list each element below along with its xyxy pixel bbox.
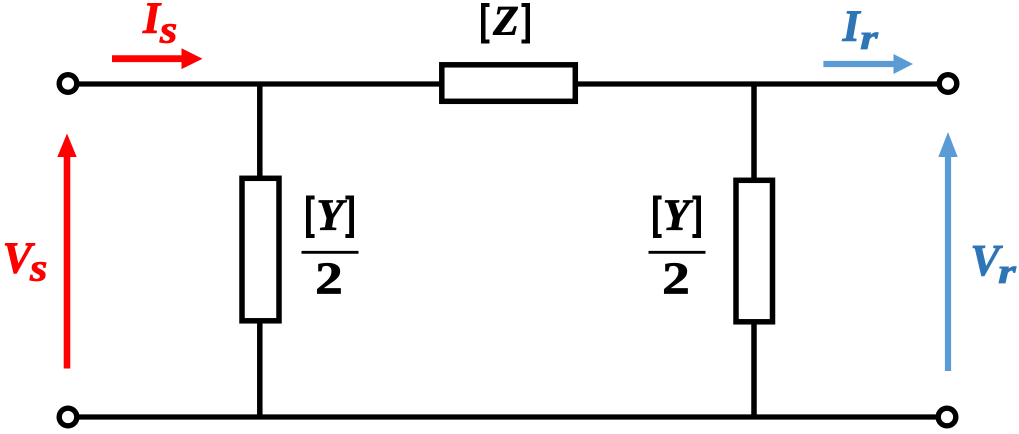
svg-text:r: r bbox=[998, 252, 1017, 291]
label Y/2 left denominator bbox=[315, 253, 343, 303]
arrow Vr voltage bbox=[945, 157, 951, 372]
impedance Z series box bbox=[442, 65, 576, 102]
svg-text:2: 2 bbox=[662, 253, 690, 303]
label Y/2 left numerator bbox=[306, 191, 354, 240]
arrow Is current bbox=[112, 55, 182, 62]
svg-text:I: I bbox=[842, 2, 862, 51]
label Y/2 right numerator bbox=[653, 191, 701, 240]
wire bottom rail bbox=[79, 414, 936, 419]
wire right shunt branch bbox=[751, 84, 757, 417]
terminal top-left bbox=[59, 75, 77, 93]
svg-text:s: s bbox=[29, 247, 48, 290]
svg-text:Y: Y bbox=[663, 191, 694, 240]
label Y/2 right denominator bbox=[662, 253, 690, 303]
terminal bottom-left bbox=[59, 408, 77, 426]
fraction bar right bbox=[649, 251, 706, 254]
terminal bottom-right bbox=[938, 408, 956, 426]
arrow Ir current bbox=[823, 61, 893, 67]
admittance Y/2 left shunt box bbox=[242, 178, 279, 320]
svg-text:s: s bbox=[159, 9, 178, 52]
wire left shunt branch bbox=[257, 84, 263, 417]
label Z value bbox=[481, 0, 530, 45]
wire top rail bbox=[79, 81, 937, 86]
svg-text:2: 2 bbox=[315, 253, 343, 303]
arrow Vs voltage bbox=[64, 157, 71, 369]
terminal top-right bbox=[939, 75, 957, 93]
svg-text:Z: Z bbox=[492, 0, 519, 45]
svg-text:r: r bbox=[860, 18, 879, 57]
fraction bar left bbox=[302, 251, 359, 254]
svg-text:Y: Y bbox=[317, 191, 348, 240]
admittance Y/2 right shunt box bbox=[736, 180, 773, 321]
